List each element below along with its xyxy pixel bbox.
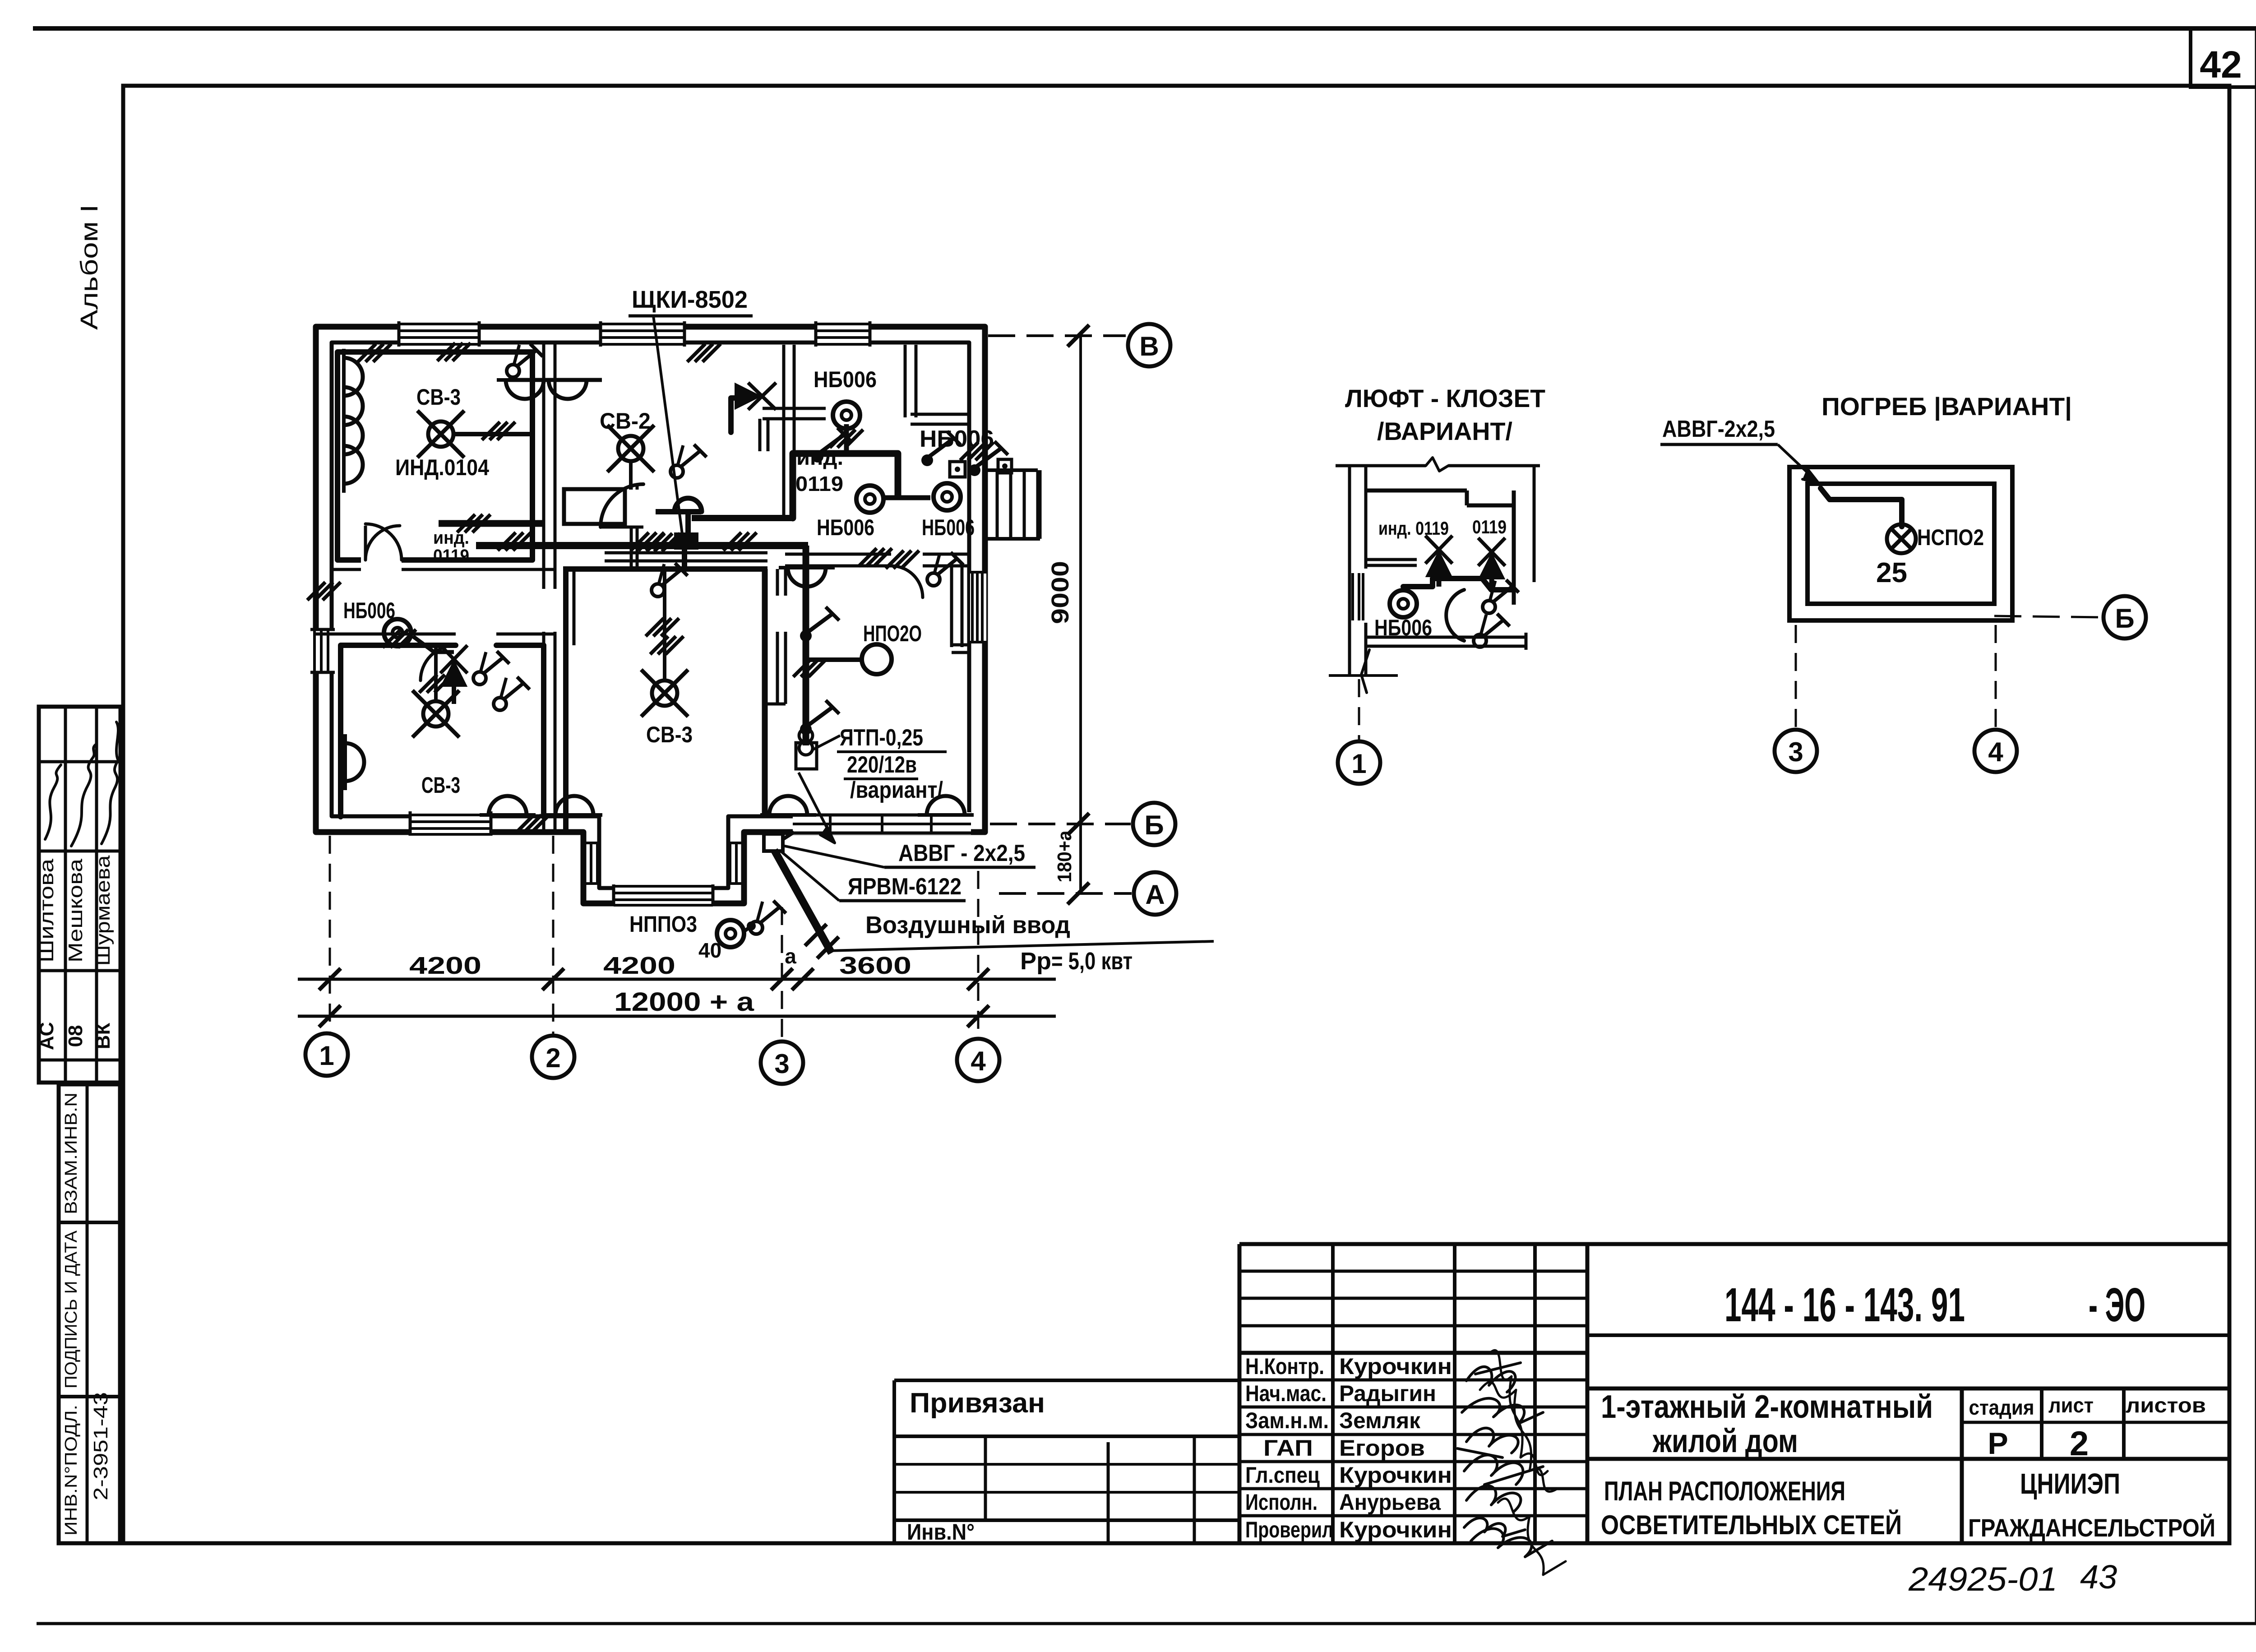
svg-text:1: 1 — [1351, 749, 1366, 779]
switch dot a — [800, 607, 839, 642]
dim text 180+a — [1054, 830, 1076, 882]
sidebar label vzam inv — [62, 1092, 81, 1214]
door arc h1b — [365, 524, 402, 560]
bay window right — [727, 843, 745, 884]
privyazan label — [910, 1388, 1045, 1419]
door arc room1 bottom — [212, 0, 213, 0]
svg-text:Воздушный ввод: Воздушный ввод — [865, 912, 1070, 939]
switch dot kitchen — [812, 428, 851, 463]
axis circle 4 — [957, 1039, 999, 1081]
stamp document number — [1724, 1278, 2145, 1332]
svg-text:ВЗАМ.ИНВ.N: ВЗАМ.ИНВ.N — [62, 1092, 81, 1214]
small outlet square — [950, 462, 965, 477]
sidebar lower table — [59, 1084, 120, 1543]
svg-text:НБ006: НБ006 — [814, 367, 877, 392]
hatch sv3 bottom — [419, 675, 453, 693]
wall horizontal h2 — [316, 633, 555, 636]
pogreb wire — [1821, 488, 1902, 527]
sidebar label inv n podl — [62, 1405, 81, 1536]
label IND.0104 — [395, 455, 489, 480]
dim 180+a segment — [1079, 824, 1082, 893]
svg-text:Зам.н.м.: Зам.н.м. — [1245, 1408, 1329, 1433]
luft bottom wall — [1366, 633, 1526, 650]
left valve ind0119 — [440, 645, 467, 686]
axis circle 3 — [761, 1041, 803, 1084]
label NPO20 — [863, 621, 922, 646]
left valve stem — [452, 686, 456, 704]
axis circle 2 — [532, 1036, 574, 1078]
svg-text:СВ-3: СВ-3 — [646, 722, 693, 747]
axis circle A — [1134, 872, 1176, 915]
svg-text:12000 + а: 12000 + а — [614, 987, 754, 1017]
svg-text:НБ006: НБ006 — [920, 426, 994, 452]
svg-text:Шурмаева: Шурмаева — [92, 855, 114, 966]
bay window bottom — [614, 884, 713, 906]
svg-text:СВ-3: СВ-3 — [416, 384, 461, 410]
svg-text:НБ006: НБ006 — [922, 515, 975, 540]
svg-text:220/12в: 220/12в — [847, 752, 917, 778]
dimension ticks row1 — [319, 968, 989, 990]
svg-text:инд. 0119: инд. 0119 — [1378, 518, 1449, 539]
sidebar names — [36, 855, 114, 966]
wall vertical w1 — [544, 343, 555, 832]
wall hall upper — [631, 484, 637, 568]
svg-text:= 5,0 квт: = 5,0 квт — [1051, 948, 1133, 975]
svg-text:2: 2 — [546, 1043, 560, 1073]
svg-text:0119: 0119 — [433, 546, 469, 566]
dim text a small — [785, 944, 796, 968]
svg-text:3600: 3600 — [839, 952, 911, 979]
svg-text:Мешкова: Мешкова — [65, 858, 87, 963]
window top 2 — [601, 321, 684, 347]
label NB006 left — [343, 598, 395, 623]
label vozdushny vvod — [828, 912, 1214, 951]
dim text 4200 a — [409, 952, 481, 979]
window top 3 — [816, 321, 870, 347]
socket pair wire — [885, 495, 930, 500]
left socket wire — [413, 636, 454, 652]
door arc hall — [601, 484, 643, 527]
central lamp stem — [663, 569, 666, 679]
luft room walls — [1366, 466, 1534, 605]
svg-text:ГАП: ГАП — [1263, 1435, 1313, 1461]
svg-text:Земляк: Земляк — [1339, 1408, 1421, 1433]
label SCHKI-8502 — [629, 286, 753, 316]
wall kitchen w3 — [784, 345, 794, 515]
luft valve 1 — [1425, 536, 1452, 587]
label YATP block — [837, 725, 947, 803]
label 40 — [698, 939, 721, 962]
left socket NB006 — [384, 619, 411, 646]
door arc bottom room — [421, 645, 456, 680]
label NB006 mid left — [817, 515, 874, 540]
window left wall — [310, 629, 335, 672]
svg-text:ЦНИИЭП: ЦНИИЭП — [2020, 1467, 2120, 1500]
label NB006 kitchen — [814, 367, 877, 392]
label SV-3 central — [646, 722, 693, 747]
window bottom right band — [793, 812, 971, 835]
dimension line row1 — [298, 978, 1056, 981]
svg-text:Б: Б — [2115, 603, 2134, 634]
luft label 0119 — [1472, 516, 1507, 537]
svg-text:стадия: стадия — [1969, 1396, 2034, 1419]
sv3 bottom ceiling lamp — [412, 690, 459, 737]
svg-text:В: В — [1139, 331, 1159, 361]
svg-text:0119: 0119 — [1472, 516, 1507, 537]
sidebar signature scribbles — [45, 722, 118, 846]
svg-text:ЛЮФТ - КЛОЗЕТ: ЛЮФТ - КЛОЗЕТ — [1345, 384, 1545, 412]
svg-text:НСПО2: НСПО2 — [1917, 525, 1984, 550]
sidebar upper table — [39, 707, 120, 1083]
room1 interior walls — [337, 352, 532, 560]
wall horizontal h1 — [332, 568, 555, 571]
luft door arc — [1446, 590, 1464, 641]
svg-text:ПЛАН РАСПОЛОЖЕНИЯ: ПЛАН РАСПОЛОЖЕНИЯ — [1604, 1476, 1845, 1506]
svg-text:ГРАЖДАНСЕЛЬСТРОЙ: ГРАЖДАНСЕЛЬСТРОЙ — [1968, 1513, 2215, 1542]
privyazan box — [894, 1380, 1239, 1543]
svg-text:- ЭО: - ЭО — [2089, 1278, 2145, 1332]
leader YATP — [812, 736, 840, 750]
svg-text:/вариант/: /вариант/ — [850, 777, 943, 803]
socket mid left — [856, 486, 883, 513]
luft socket — [1390, 590, 1417, 617]
wire to NPO20 — [806, 657, 861, 662]
dim text 4200 b — [603, 952, 675, 979]
label AVVG — [884, 840, 1036, 867]
hatch room1 — [482, 422, 515, 440]
svg-text:08: 08 — [65, 1025, 87, 1047]
NPPO3 socket — [717, 920, 756, 947]
kitchen wire loop — [793, 453, 898, 518]
svg-text:Привязан: Привязан — [910, 1388, 1045, 1419]
stamp project title — [1601, 1389, 1933, 1459]
label SV-2 — [600, 408, 651, 434]
svg-text:Н.Контр.: Н.Контр. — [1245, 1354, 1324, 1379]
svg-text:3: 3 — [774, 1049, 789, 1079]
svg-text:АВВГ-2х2,5: АВВГ-2х2,5 — [1662, 416, 1775, 442]
svg-text:листов: листов — [2126, 1393, 2206, 1417]
hatch h2 — [383, 629, 416, 648]
sidebar discipline codes — [36, 1022, 114, 1050]
svg-text:СВ-2: СВ-2 — [600, 408, 651, 434]
label Pp — [1020, 948, 1133, 975]
svg-text:Курочкин: Курочкин — [1339, 1354, 1452, 1379]
window right wall — [970, 572, 986, 642]
hatch run2 b — [723, 532, 892, 566]
svg-text:43: 43 — [2080, 1558, 2117, 1596]
svg-text:ПОДПИСЬ И ДАТА: ПОДПИСЬ И ДАТА — [62, 1230, 81, 1388]
svg-text:0119: 0119 — [795, 472, 843, 495]
sconce h3 — [779, 568, 835, 587]
luft switches — [1474, 580, 1519, 647]
page number box — [2191, 28, 2256, 87]
panel drop wire — [682, 548, 687, 569]
dimension line row2 — [298, 1015, 1056, 1018]
pogreb label AVVG — [1660, 416, 1778, 444]
svg-text:/ВАРИАНТ/: /ВАРИАНТ/ — [1377, 417, 1512, 445]
axis B line top — [988, 325, 1126, 347]
luft left window — [1353, 573, 1363, 620]
stamp stage headers — [1969, 1393, 2206, 1419]
switch dot right — [921, 431, 961, 466]
svg-text:Рр: Рр — [1020, 948, 1051, 975]
switch dot b — [800, 700, 839, 735]
door button square — [998, 459, 1012, 473]
wire main run2 — [476, 542, 808, 549]
svg-text:НБ006: НБ006 — [1374, 615, 1432, 640]
luft top wall — [1336, 458, 1540, 471]
svg-text:Радыгин: Радыгин — [1339, 1381, 1436, 1406]
hatch room1 top wall — [437, 343, 471, 361]
svg-text:а: а — [785, 944, 796, 968]
svg-text:4: 4 — [971, 1046, 986, 1076]
stamp signatures scribbles — [1457, 1350, 1566, 1575]
svg-text:Проверил: Проверил — [1245, 1517, 1333, 1542]
stamp sheet title — [1601, 1476, 1902, 1540]
axis circle V — [1128, 324, 1170, 366]
svg-text:ПОГРЕБ |ВАРИАНТ|: ПОГРЕБ |ВАРИАНТ| — [1821, 392, 2072, 421]
svg-text:180+а: 180+а — [1054, 830, 1076, 882]
pogreb axis 3 — [1775, 625, 1817, 772]
svg-text:1-этажный 2-комнатный: 1-этажный 2-комнатный — [1601, 1389, 1933, 1425]
stamp stage values — [1988, 1425, 2089, 1463]
sconce room1 top pair — [497, 380, 602, 399]
label ind 0119 top — [795, 446, 843, 495]
svg-text:НПО2О: НПО2О — [863, 621, 922, 646]
axis guide lines — [330, 836, 978, 1038]
dim text 3600 — [839, 952, 911, 979]
pogreb inner box — [1808, 484, 1994, 604]
stamp organization — [1968, 1467, 2215, 1542]
svg-text:жилой дом: жилой дом — [1652, 1423, 1798, 1459]
svg-text:ЯТП-0,25: ЯТП-0,25 — [840, 725, 923, 751]
window bottom left — [410, 811, 491, 836]
svg-text:ИНВ.N°ПОДЛ.: ИНВ.N°ПОДЛ. — [62, 1405, 81, 1536]
svg-text:лист: лист — [2048, 1393, 2094, 1417]
wall central room right — [762, 569, 768, 816]
svg-text:Нач.мас.: Нач.мас. — [1245, 1381, 1327, 1406]
pogreb lamp — [1887, 524, 1916, 553]
label NB006 mid right — [922, 515, 975, 540]
axis B line — [990, 813, 1131, 835]
dimension ticks row2 — [319, 1005, 989, 1027]
album label — [76, 204, 103, 330]
svg-text:НБ006: НБ006 — [817, 515, 874, 540]
room sv3 bottom lamp stem — [434, 646, 438, 701]
room1 lamp wire — [454, 432, 532, 436]
luft label NB006 — [1374, 615, 1432, 640]
wall central room left — [566, 569, 574, 832]
pogreb label NSPO2 — [1917, 525, 1984, 550]
page number 42 — [2200, 43, 2242, 86]
label YARVM — [839, 874, 966, 901]
wire hall run1 — [439, 520, 545, 527]
sidebar label podpis i data — [62, 1230, 81, 1388]
sv2 ceiling lamp — [607, 425, 654, 472]
svg-text:ОСВЕТИТЕЛЬНЫХ СЕТЕЙ: ОСВЕТИТЕЛЬНЫХ СЕТЕЙ — [1601, 1510, 1902, 1540]
svg-text:3: 3 — [1788, 737, 1803, 767]
svg-text:24925-01: 24925-01 — [1908, 1560, 2057, 1598]
svg-text:АС: АС — [36, 1022, 58, 1050]
svg-text:Шилтова: Шилтова — [36, 858, 58, 963]
sconce left wall bottom room — [345, 734, 364, 790]
kitchen feed wire — [692, 515, 793, 521]
svg-text:Альбом I: Альбом I — [76, 204, 103, 330]
central ceiling lamp — [641, 670, 688, 717]
leader SCHKI — [653, 316, 682, 534]
svg-text:СВ-3: СВ-3 — [421, 773, 460, 798]
sconces room1 left wall — [344, 349, 363, 493]
door button switch — [969, 441, 1008, 476]
svg-text:25: 25 — [1876, 557, 1907, 588]
svg-text:Курочкин: Курочкин — [1339, 1517, 1452, 1542]
leader variant arrow — [799, 773, 835, 843]
pogreb title — [1821, 392, 2072, 421]
svg-text:ЯРВМ-6122: ЯРВМ-6122 — [848, 874, 962, 900]
paper bottom edge — [37, 1622, 2256, 1625]
NPO20 lamp circle — [862, 644, 892, 674]
house outer wall — [316, 327, 985, 903]
hatch drop — [793, 659, 827, 677]
paper top edge — [33, 26, 2256, 31]
extra wall hatches — [307, 344, 994, 833]
kitchen socket stem — [844, 424, 849, 452]
hatch run2 a — [631, 532, 680, 551]
svg-text:ИНД.0104: ИНД.0104 — [395, 455, 489, 480]
top middle valve — [735, 383, 776, 410]
switch glyphs — [473, 344, 963, 934]
label ind0119 left — [433, 528, 469, 566]
svg-text:Курочкин: Курочкин — [1339, 1462, 1452, 1488]
wire drop right — [803, 546, 809, 745]
luft axis 1 — [1338, 679, 1380, 784]
luft label ind0119 — [1378, 518, 1449, 539]
entrance stair — [985, 470, 1040, 539]
wall small w5 — [952, 566, 969, 652]
svg-text:АВВГ - 2х2,5: АВВГ - 2х2,5 — [898, 840, 1025, 866]
pogreb outer box — [1789, 467, 2012, 620]
door arc h3 — [891, 566, 923, 597]
pogreb label 25 — [1876, 557, 1907, 588]
hatch central stem — [646, 618, 684, 654]
svg-text:ВК: ВК — [92, 1023, 114, 1050]
stamp grid — [1239, 1244, 2229, 1543]
svg-text:инд.: инд. — [433, 528, 469, 548]
stamp roles column — [1245, 1354, 1333, 1542]
label SV-3 room1 — [416, 384, 461, 410]
sv2 lamp stem — [629, 462, 633, 490]
svg-text:Егоров: Егоров — [1339, 1435, 1425, 1461]
luft bottom tick line — [1329, 650, 1398, 693]
wall top right w4 — [905, 345, 969, 424]
svg-text:Р: Р — [1988, 1426, 2008, 1461]
svg-text:Б: Б — [1144, 810, 1164, 840]
luft wiring — [1403, 578, 1514, 590]
socket mid right — [934, 483, 961, 510]
svg-text:Исполн.: Исполн. — [1245, 1490, 1318, 1515]
pogreb leader — [1778, 444, 1818, 483]
handwritten archive number — [1908, 1558, 2117, 1598]
svg-text:ЩКИ-8502: ЩКИ-8502 — [632, 286, 748, 313]
dim text 9000 — [1047, 561, 1074, 624]
axis circle B — [1133, 803, 1175, 845]
svg-text:4200: 4200 — [603, 952, 675, 979]
svg-text:144 - 16 - 143. 91: 144 - 16 - 143. 91 — [1724, 1278, 1965, 1332]
leader AVVG — [783, 846, 884, 867]
svg-text:4: 4 — [1988, 737, 2003, 767]
svg-text:А: А — [1145, 879, 1165, 910]
svg-text:НППО3: НППО3 — [629, 912, 697, 937]
svg-text:2-3951-43: 2-3951-43 — [90, 1392, 112, 1500]
sconces bottom wall — [480, 796, 974, 815]
top middle valve wire — [731, 398, 744, 432]
svg-text:42: 42 — [2200, 43, 2242, 86]
dim text 12000+a — [614, 987, 754, 1017]
hall dome lamp — [656, 498, 702, 535]
bottom left room interior — [341, 645, 544, 817]
wall horizontal h3 — [563, 553, 969, 569]
cupboard rectangle hall — [564, 489, 625, 524]
aerial input cable — [774, 850, 839, 958]
svg-text:инд.: инд. — [796, 446, 843, 469]
paper right edge — [2255, 28, 2256, 1624]
panel SCHKI-8502 — [675, 534, 697, 548]
bay window left — [582, 843, 600, 884]
YATP device — [796, 729, 817, 769]
svg-text:Анурьева: Анурьева — [1339, 1490, 1441, 1515]
axis circle 1 — [305, 1033, 348, 1076]
leader YARVM — [781, 851, 839, 901]
svg-text:4200: 4200 — [409, 952, 481, 979]
vertical dim 9000 — [1079, 336, 1082, 824]
wall bathroom partition — [765, 569, 786, 704]
wall bathroom top — [760, 408, 826, 451]
svg-text:НБ006: НБ006 — [343, 598, 395, 623]
sidebar inventory number — [90, 1392, 112, 1500]
inv no label — [907, 1519, 975, 1545]
room1 ceiling lamp — [417, 411, 464, 458]
svg-text:9000: 9000 — [1047, 561, 1074, 624]
svg-text:2: 2 — [2070, 1425, 2089, 1463]
svg-text:Инв.N°: Инв.N° — [907, 1519, 975, 1545]
luft valve 2 — [1478, 538, 1505, 590]
stamp names column — [1339, 1354, 1452, 1542]
hatch run1 a — [457, 514, 490, 532]
luft left wall — [1350, 466, 1366, 676]
pogreb axis 4 — [1974, 625, 2017, 772]
YARVM box — [764, 832, 794, 851]
window top 1 — [399, 321, 479, 347]
door arc h1 — [365, 526, 400, 560]
svg-text:Гл.спец: Гл.спец — [1245, 1462, 1320, 1488]
label SV-3 bottom left — [421, 773, 460, 798]
hatch run1 b — [498, 532, 531, 551]
luft title — [1345, 384, 1545, 445]
hatch kitchen stem — [830, 430, 863, 448]
pogreb axis B — [1994, 596, 2146, 639]
axis A line — [999, 883, 1132, 904]
kitchen socket NB006 — [833, 402, 860, 429]
label NB006 top right — [920, 426, 994, 452]
label NPPO3 — [629, 912, 697, 937]
svg-text:1: 1 — [319, 1041, 334, 1071]
